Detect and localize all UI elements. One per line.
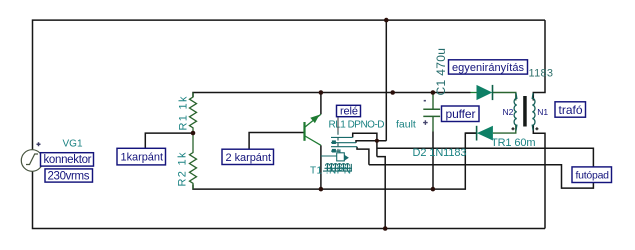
wire: right column top into transformer N1 — [533, 20, 545, 100]
svg-text:1183: 1183 — [529, 68, 554, 80]
wire: D2 anode to N2 bottom (green) — [493, 125, 516, 133]
wire: outer loop bottom from VG1 — [33, 171, 546, 228]
voltage source VG1 — [21, 150, 43, 172]
svg-text:futópad: futópad — [576, 170, 610, 182]
label box konnektor — [41, 153, 94, 166]
label box futopad — [572, 167, 612, 183]
svg-text:VG1: VG1 — [63, 139, 83, 150]
VG1 plus — [37, 142, 41, 146]
transformer TR1 phase dot N2 — [512, 127, 515, 130]
label box egyeniranyitas — [449, 60, 528, 74]
wire: relay contact3 jog down — [357, 147, 369, 165]
transistor T1 — [305, 114, 321, 145]
wire: fault column upper (top rail to relay contact2 row) — [385, 20, 387, 141]
svg-text:N1: N1 — [537, 107, 548, 117]
relay RL1 contacts — [331, 137, 357, 151]
junction dot row92 mid — [390, 90, 395, 95]
svg-text:230vrms: 230vrms — [48, 170, 90, 182]
diode D1 — [471, 92, 477, 94]
svg-text:fault: fault — [396, 119, 416, 131]
junction dot bottom rail — [383, 226, 388, 231]
junction dot T1 collector on row92 — [319, 90, 324, 95]
diode D2 — [476, 126, 478, 141]
relay RL1 contact squares — [332, 140, 336, 144]
svg-text:puffer: puffer — [446, 107, 476, 121]
label box 230vrms — [45, 169, 93, 182]
svg-text:RL1 DPNO-D: RL1 DPNO-D — [329, 120, 385, 131]
junction dot C1 bottom on row188 — [431, 187, 436, 192]
svg-text:trafó: trafó — [559, 103, 583, 117]
svg-text:konnektor: konnektor — [44, 154, 92, 166]
label box 2karpant — [222, 149, 274, 164]
transformer TR1 core — [523, 96, 527, 127]
svg-text:1karpánt: 1karpánt — [121, 152, 164, 164]
svg-text:R1 1k: R1 1k — [178, 96, 190, 131]
relay RL1 coil inductor jumble — [323, 164, 352, 172]
label box rele — [337, 105, 361, 117]
relay linkage dashed line — [337, 132, 339, 153]
wire: T1 emitter vertical down to row188 — [320, 145, 322, 189]
svg-text:TR1 60m: TR1 60m — [491, 137, 536, 149]
wire: outer loop top-left — [33, 20, 546, 150]
junction dot top rail — [384, 18, 389, 23]
junction dot R1/R2/1karpant — [191, 131, 196, 136]
wire: row188 from R2 bottom to D2 drop — [193, 133, 477, 189]
svg-text:N2: N2 — [503, 107, 514, 117]
wire: row92 right of D1 to N2 winding top (green) — [493, 93, 516, 101]
label box puffer — [442, 106, 480, 122]
wire: 1karpant riser and row to R junction — [145, 133, 193, 148]
transformer TR1 phase dot N1 — [535, 127, 538, 130]
wire: T1 collector vertical to row92 — [320, 93, 322, 115]
label C1 plus — [423, 120, 428, 125]
wire: transformer N1 bottom to bottom rail — [533, 125, 545, 228]
svg-text:relé: relé — [340, 105, 358, 117]
wire: fault column lower (relay jog to bottom rail) — [377, 157, 385, 229]
resistor R1 — [190, 93, 197, 134]
transistor T1 arrow — [310, 115, 319, 123]
wire: C1 bottom lead to row188 — [432, 132, 434, 190]
wire: relay contact1 staircase (row133 into descending column) — [353, 133, 377, 156]
label pointer line rele — [337, 117, 339, 132]
label C1 minus — [424, 100, 426, 102]
svg-text:D2 1N1183: D2 1N1183 — [413, 147, 467, 159]
wire: relay contact2 row to fault column — [356, 141, 386, 143]
svg-text:R2 1k: R2 1k — [177, 152, 189, 187]
transformer TR1 winding N1 — [532, 93, 535, 131]
capacitor C1 — [423, 93, 440, 132]
resistor R2 — [190, 133, 197, 189]
label box trafo — [555, 102, 586, 117]
wire: D2 cathode to row188 drop — [465, 132, 476, 134]
junction dot C1 top on row92 — [431, 90, 436, 95]
relay RL1 coil diode flag — [344, 155, 349, 161]
junction dot relay staircase crossing — [375, 139, 379, 143]
wire: 2karpant riser and T1 base row — [249, 133, 304, 150]
svg-text:2 karpánt: 2 karpánt — [226, 152, 272, 164]
VG1 waveform glyph — [26, 154, 38, 165]
transformer TR1 winding N2 — [514, 93, 517, 131]
svg-text:egyenirányítás: egyenirányítás — [452, 62, 525, 74]
svg-text:C1 470u: C1 470u — [434, 48, 448, 96]
junction dot T1 emitter on row188 — [319, 187, 324, 192]
label box 1karpant — [117, 148, 166, 165]
wire: row147.8 to futopad top pin — [377, 148, 594, 167]
wire: row92 from R1 top to transformer N2 top — [193, 93, 471, 98]
wire: row164.3 to futopad bottom loop — [369, 165, 594, 188]
relay RL1 coil — [321, 149, 344, 161]
